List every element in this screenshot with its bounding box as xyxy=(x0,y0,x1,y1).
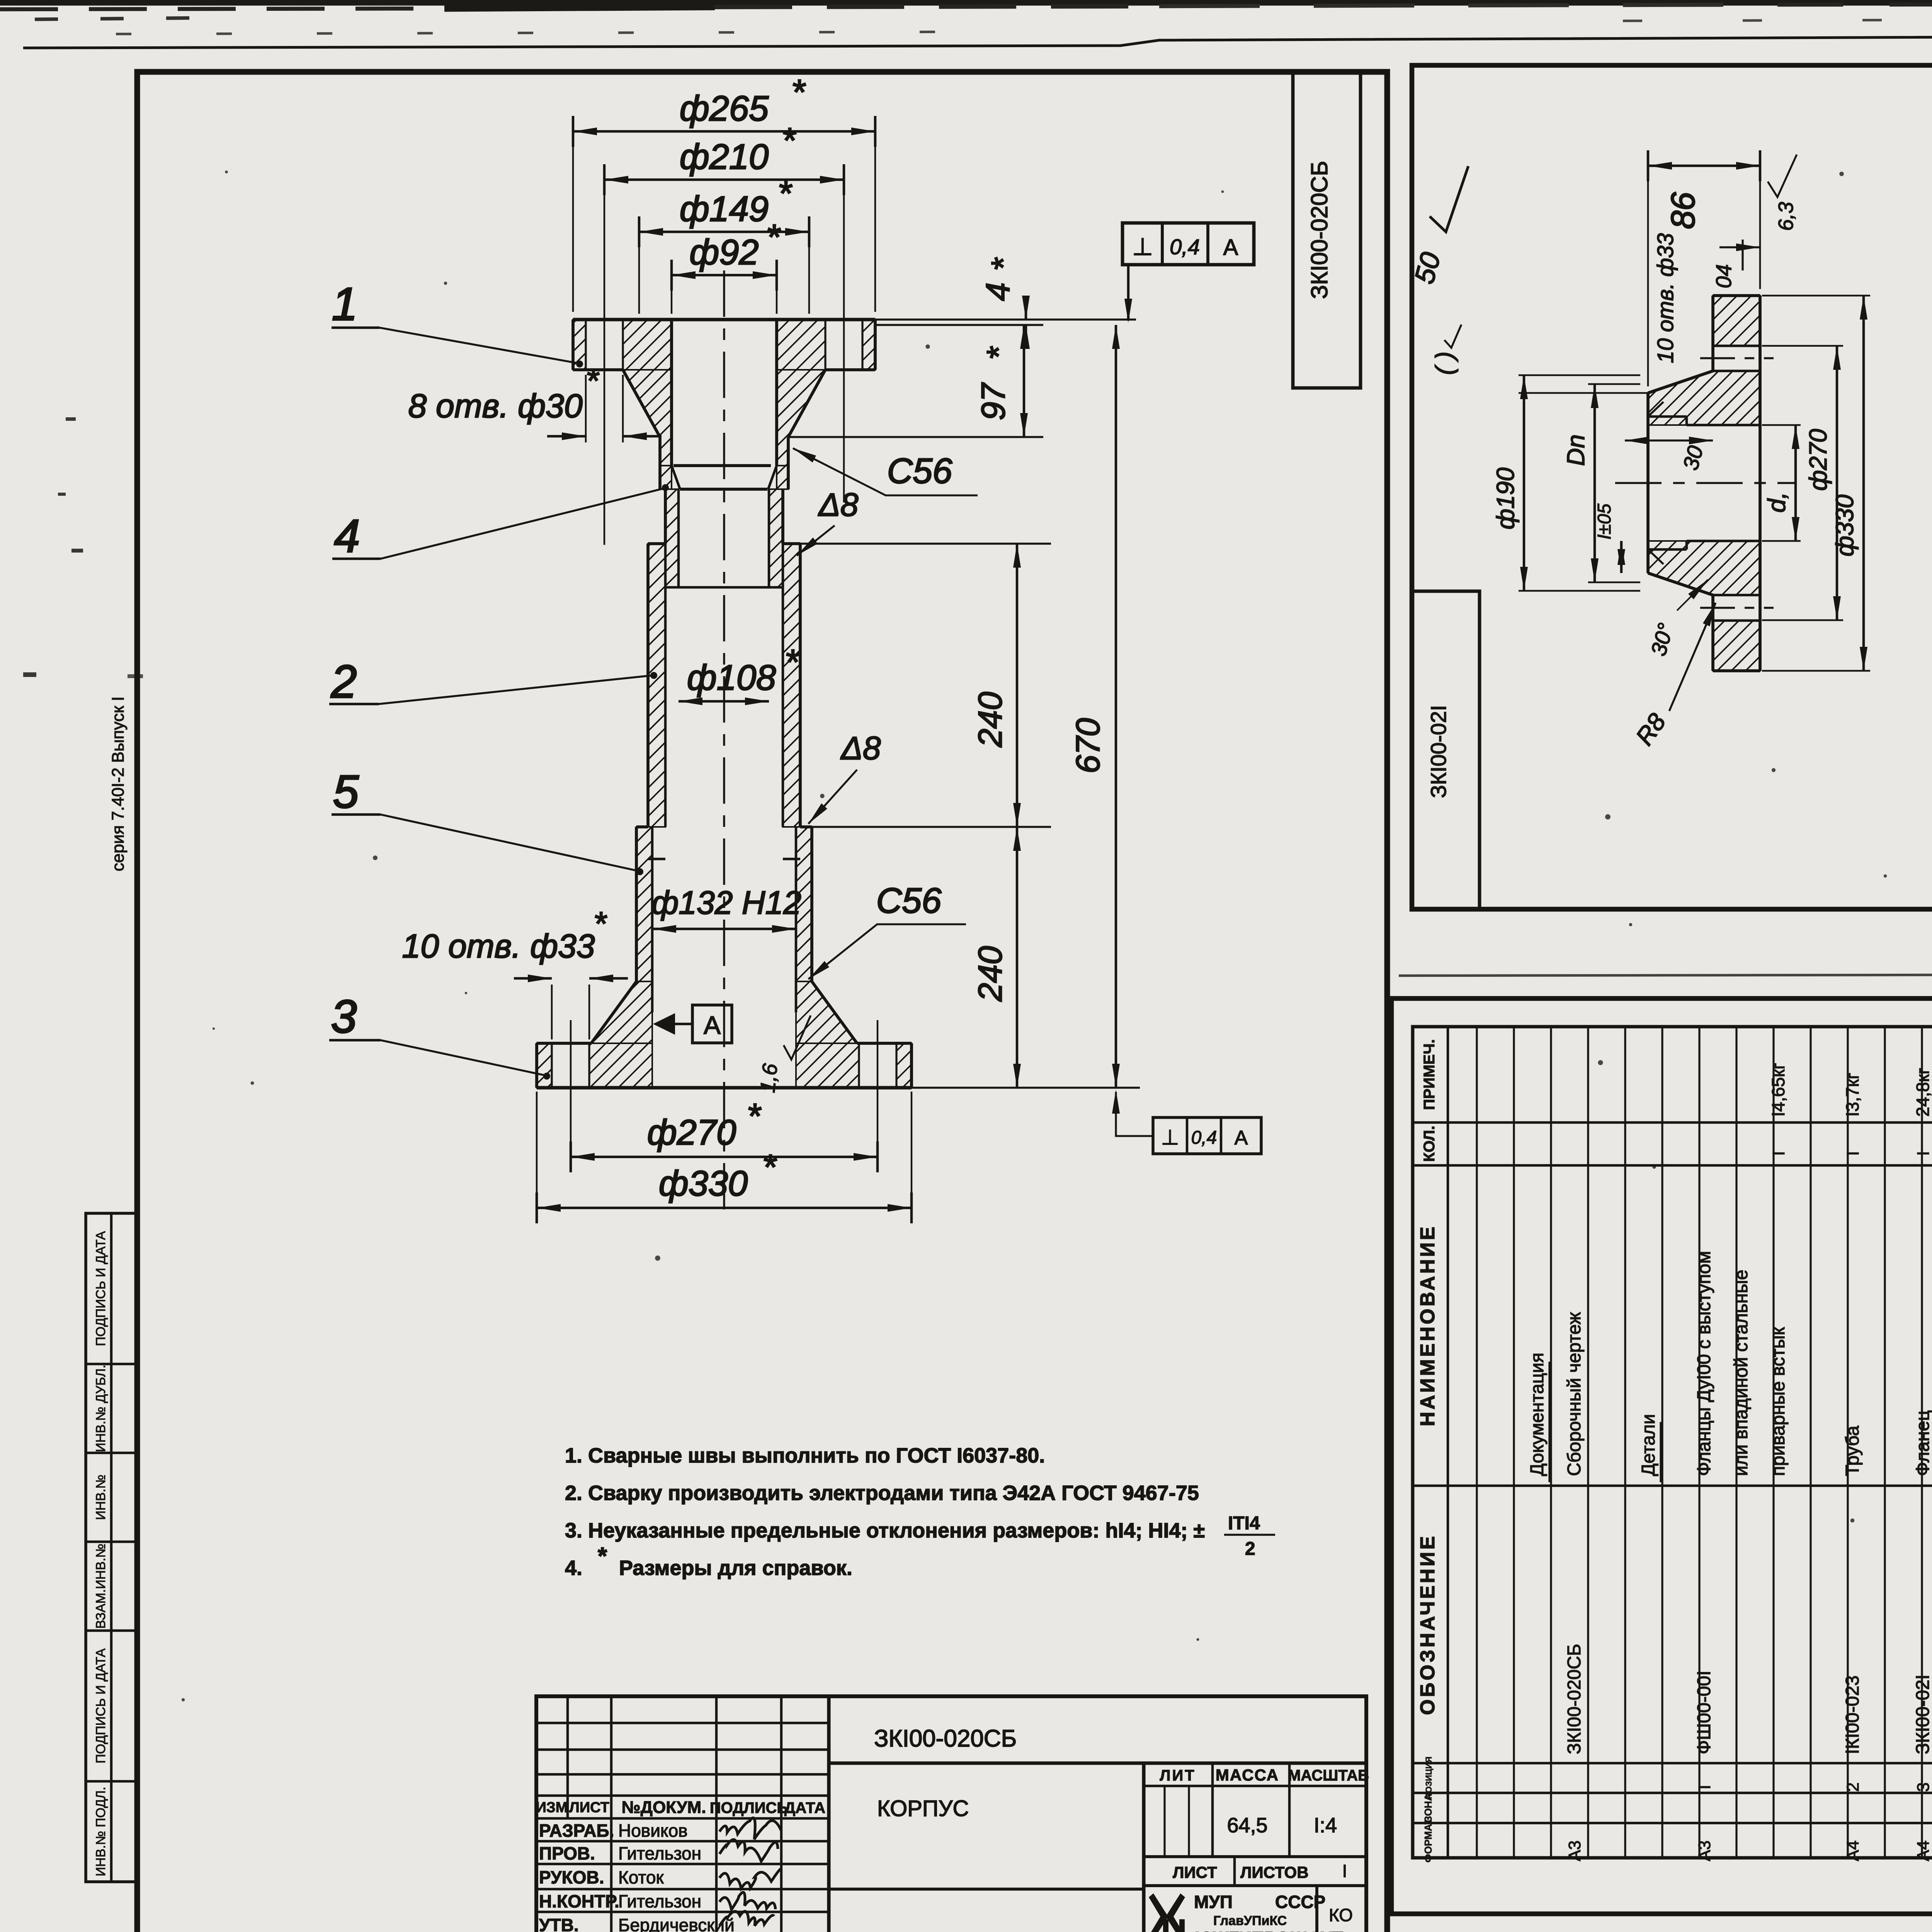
spec table outer xyxy=(1413,1027,1932,1858)
title block lit massa masshtab xyxy=(1144,1785,1366,1787)
svg-text:ПОДПИСЬ И ДАТА: ПОДПИСЬ И ДАТА xyxy=(94,1648,108,1764)
svg-text:ЗКI00-02I: ЗКI00-02I xyxy=(1426,705,1451,798)
svg-text:ПОДПИСЬ И ДАТА: ПОДПИСЬ И ДАТА xyxy=(94,1231,108,1346)
svg-text:Гительзон: Гительзон xyxy=(618,1891,701,1912)
cone hatching right xyxy=(796,981,857,1043)
dimension 240 upper xyxy=(800,543,1051,544)
spec sheet frame xyxy=(1391,998,1932,1914)
svg-text:I: I xyxy=(1695,1785,1714,1789)
svg-text:I: I xyxy=(1769,1151,1788,1156)
svg-text:*: * xyxy=(791,73,806,112)
svg-text:I:4: I:4 xyxy=(1314,1814,1337,1837)
pipe hatching xyxy=(665,489,679,587)
logo glyph xyxy=(1149,1893,1185,1932)
svg-text:ЗКI00-02I: ЗКI00-02I xyxy=(1913,1675,1932,1754)
svg-text:I: I xyxy=(1844,1151,1862,1156)
dimension 4* xyxy=(1025,298,1027,320)
bushing to bottom flange cone xyxy=(591,981,636,1043)
svg-text:ЗКI00-020СБ: ЗКI00-020СБ xyxy=(1564,1644,1585,1754)
svg-text:ЛИСТ: ЛИСТ xyxy=(569,1799,609,1816)
top flange neck cone walls xyxy=(623,370,660,437)
title block list listov row xyxy=(1233,1857,1236,1886)
sleeve hatching xyxy=(648,544,665,827)
svg-text:Новиков: Новиков xyxy=(618,1821,688,1841)
flange sheet bottom paper edge xyxy=(1399,974,1932,976)
bushing hatching xyxy=(636,827,652,981)
svg-text:Фланцы ДуI00 с выступом: Фланцы ДуI00 с выступом xyxy=(1694,1251,1714,1476)
svg-text:4: 4 xyxy=(980,282,1017,301)
title block organization logo cell xyxy=(1315,1886,1318,1932)
svg-text:УТВ.: УТВ. xyxy=(539,1915,579,1932)
top flange hatching xyxy=(573,320,586,370)
flange disc outline xyxy=(1713,294,1760,297)
svg-text:10 отв. ф33: 10 отв. ф33 xyxy=(1653,233,1678,363)
svg-text:ЛИСТ: ЛИСТ xyxy=(1173,1863,1217,1881)
flange dim d1 xyxy=(1762,424,1801,426)
svg-text:ЗКI00-020СБ: ЗКI00-020СБ xyxy=(1306,161,1332,299)
svg-text:Бердичевский: Бердичевский xyxy=(618,1915,735,1932)
bushing poz.3 walls xyxy=(635,827,638,981)
svg-text:ДАТА: ДАТА xyxy=(784,1799,825,1816)
svg-text:А: А xyxy=(1223,235,1238,260)
flange dim 86 xyxy=(1647,158,1649,386)
dimension f149 xyxy=(638,224,640,314)
flange bolt hole top xyxy=(1713,345,1760,347)
left margin filing table xyxy=(86,1213,137,1882)
svg-text:86: 86 xyxy=(1665,192,1702,229)
svg-text:I: I xyxy=(1914,1151,1932,1156)
svg-text:*: * xyxy=(980,346,1017,360)
svg-text:ЛИТ: ЛИТ xyxy=(1160,1767,1196,1784)
svg-text:ЗОНА: ЗОНА xyxy=(1422,1794,1434,1822)
svg-text:ФОРМАТ: ФОРМАТ xyxy=(1422,1818,1434,1863)
svg-text:КО: КО xyxy=(1329,1905,1353,1925)
flange face datum lines right xyxy=(875,318,1136,320)
dimension f210 xyxy=(604,172,605,545)
svg-text:⊥: ⊥ xyxy=(1161,1126,1179,1149)
svg-text:А4: А4 xyxy=(1914,1840,1932,1861)
svg-text:*: * xyxy=(777,174,793,213)
svg-text:МАССА: МАССА xyxy=(1216,1766,1279,1784)
svg-text:1: 1 xyxy=(332,278,358,330)
svg-text:*: * xyxy=(781,121,796,160)
svg-text:КОРПУС: КОРПУС xyxy=(877,1796,969,1821)
svg-text:1. Сварные швы выполнить по ГО: 1. Сварные швы выполнить по ГОСТ I6037-8… xyxy=(565,1444,1045,1467)
svg-text:*: * xyxy=(585,362,599,400)
left sheet title block xyxy=(536,1696,1366,1932)
svg-text:ИЗМ: ИЗМ xyxy=(536,1799,568,1816)
svg-text:Документация: Документация xyxy=(1527,1353,1548,1476)
svg-text:А: А xyxy=(1235,1127,1248,1149)
spec table column lines xyxy=(1476,1027,1478,1858)
svg-text:240: 240 xyxy=(972,692,1009,748)
svg-text:РАЗРАБ.: РАЗРАБ. xyxy=(539,1821,614,1841)
pipe lower end face xyxy=(665,586,783,589)
weld joint lines C56 top xyxy=(673,464,771,467)
pipe poz.2 walls xyxy=(664,489,667,544)
svg-text:*: * xyxy=(747,1097,762,1136)
svg-text:ф330: ф330 xyxy=(1831,494,1859,556)
svg-text:ф132 Н12: ф132 Н12 xyxy=(651,884,801,921)
flange sheet frame xyxy=(1412,65,1932,909)
dimension f265 xyxy=(572,124,574,312)
dimension 97* xyxy=(788,436,1043,438)
svg-text:*: * xyxy=(762,1148,777,1187)
svg-text:Dn: Dn xyxy=(1562,434,1590,466)
svg-text:А4: А4 xyxy=(1844,1840,1862,1861)
svg-text:или впадиной стальные: или впадиной стальные xyxy=(1731,1270,1752,1476)
datum A flag xyxy=(653,1013,675,1035)
svg-text:64,5: 64,5 xyxy=(1227,1814,1267,1837)
svg-text:IТI4: IТI4 xyxy=(1228,1513,1260,1534)
svg-text:ИНВ.№ ДУБЛ.: ИНВ.№ ДУБЛ. xyxy=(94,1365,108,1452)
flange dim 40 xyxy=(1742,240,1743,270)
svg-text:Гительзон: Гительзон xyxy=(618,1844,701,1864)
svg-text:ИНВ.№ ПОДЛ.: ИНВ.№ ПОДЛ. xyxy=(94,1787,108,1876)
svg-text:ГлавУПиКС: ГлавУПиКС xyxy=(1213,1913,1287,1928)
svg-text:8 отв. ф30: 8 отв. ф30 xyxy=(408,388,583,425)
flange roughness 6,3 xyxy=(1768,155,1797,197)
flange rim hatching top xyxy=(1713,296,1760,346)
svg-text:I: I xyxy=(1342,1861,1347,1881)
svg-text:2. Сварку производить электрод: 2. Сварку производить электродами типа Э… xyxy=(565,1481,1199,1505)
svg-text:Δ8: Δ8 xyxy=(818,486,858,523)
svg-text:МУП: МУП xyxy=(1194,1892,1233,1912)
svg-text:97: 97 xyxy=(975,382,1012,420)
svg-text:ф265: ф265 xyxy=(680,89,769,128)
svg-text:ЛИСТОВ: ЛИСТОВ xyxy=(1240,1863,1309,1881)
svg-text:Размеры для справок.: Размеры для справок. xyxy=(619,1556,852,1580)
svg-text:2: 2 xyxy=(331,656,357,707)
svg-text:ф330: ф330 xyxy=(659,1164,748,1203)
svg-text:Н.КОНТР.: Н.КОНТР. xyxy=(539,1891,619,1912)
svg-text:А3: А3 xyxy=(1565,1840,1584,1861)
svg-text:Δ8: Δ8 xyxy=(840,730,881,766)
dimension f330 xyxy=(536,1092,538,1215)
svg-text:3: 3 xyxy=(331,991,357,1043)
dimension 670 xyxy=(912,1087,1140,1088)
svg-text:ПОДЛИСЬ: ПОДЛИСЬ xyxy=(710,1799,788,1816)
sleeve bottom end inside bushing xyxy=(648,858,665,861)
svg-text:А: А xyxy=(704,1011,721,1039)
svg-text:ОБОЗНАЧЕНИЕ: ОБОЗНАЧЕНИЕ xyxy=(1417,1534,1439,1715)
svg-text:6,3: 6,3 xyxy=(1774,202,1798,231)
neck hatching right xyxy=(777,370,825,466)
svg-text:C56: C56 xyxy=(876,881,942,920)
svg-text:ф92: ф92 xyxy=(689,233,759,272)
svg-text:I3,7кг: I3,7кг xyxy=(1842,1073,1862,1117)
svg-text:I4,65кг: I4,65кг xyxy=(1768,1063,1788,1117)
flange dim f270 xyxy=(1762,345,1843,347)
svg-text:3: 3 xyxy=(1914,1782,1932,1792)
svg-text:C56: C56 xyxy=(887,451,953,491)
svg-text:НАИМЕНОВАНИЕ: НАИМЕНОВАНИЕ xyxy=(1417,1225,1439,1427)
svg-text:ФШ00-00I: ФШ00-00I xyxy=(1694,1670,1714,1754)
svg-text:IКI00-023: IКI00-023 xyxy=(1842,1675,1863,1754)
svg-text:ЗКI00-020СБ: ЗКI00-020СБ xyxy=(874,1725,1017,1752)
svg-text:*: * xyxy=(784,643,799,682)
flange sheet first-use box ZK100-021 xyxy=(1412,591,1480,909)
svg-text:ф108: ф108 xyxy=(687,658,776,697)
svg-text:670: 670 xyxy=(1070,718,1107,774)
flange dim 1+-05 xyxy=(1620,541,1623,573)
flange dim f190 xyxy=(1519,392,1648,394)
svg-text:4: 4 xyxy=(334,510,360,562)
sleeve poz.5 upper walls xyxy=(646,544,650,827)
svg-text:Труба: Труба xyxy=(1842,1425,1863,1476)
flange bore lines xyxy=(1687,424,1760,427)
svg-text:№ДОКУМ.: №ДОКУМ. xyxy=(622,1798,706,1817)
drawing center line xyxy=(723,270,725,1221)
svg-text:*: * xyxy=(598,1543,607,1570)
svg-text:МАСШТАБ: МАСШТАБ xyxy=(1288,1767,1369,1784)
spec table band lines xyxy=(1413,1121,1932,1124)
svg-text:*: * xyxy=(593,905,607,942)
svg-text:2: 2 xyxy=(1245,1539,1255,1559)
svg-text:ф210: ф210 xyxy=(680,137,769,177)
flange dim 30 depth xyxy=(1625,439,1713,441)
flange bolt hole bottom xyxy=(1713,594,1760,597)
svg-text:ПОЗИЦИЯ: ПОЗИЦИЯ xyxy=(1424,1757,1434,1799)
svg-text:1,6: 1,6 xyxy=(756,1062,782,1094)
dimension f270 xyxy=(570,1020,572,1164)
svg-text:РУКОВ.: РУКОВ. xyxy=(539,1867,604,1888)
bottom flange hatching xyxy=(537,1043,552,1088)
svg-text:Сборочный чертеж: Сборочный чертеж xyxy=(1564,1312,1585,1476)
svg-text:24,8кг: 24,8кг xyxy=(1913,1068,1932,1117)
neck hatching left xyxy=(623,370,672,466)
svg-text:0,4: 0,4 xyxy=(1191,1128,1217,1148)
scan top dark edge xyxy=(0,0,1932,5)
svg-text:( ): ( ) xyxy=(1430,352,1458,375)
svg-text:ИНВ.№: ИНВ.№ xyxy=(94,1475,108,1520)
svg-text:ПРИМЕЧ.: ПРИМЕЧ. xyxy=(1421,1039,1438,1110)
flange dim Dn xyxy=(1588,383,1640,385)
svg-text:ВЗАМ.ИНВ.№: ВЗАМ.ИНВ.№ xyxy=(94,1544,108,1629)
svg-text:2: 2 xyxy=(1844,1782,1862,1792)
flange hub hatching top xyxy=(1648,371,1760,425)
svg-text:d,: d, xyxy=(1763,492,1791,512)
svg-text:КОЛ.: КОЛ. xyxy=(1421,1126,1438,1162)
tolerance frame top perpendicularity 0,4 A xyxy=(1122,223,1254,265)
doc number box top right of left sheet xyxy=(1293,72,1361,388)
spec table header column xyxy=(1447,1027,1449,1858)
svg-text:3. Неуказанные предельные откл: 3. Неуказанные предельные отклонения раз… xyxy=(565,1519,1205,1542)
album page top edge line xyxy=(23,34,1932,48)
left sheet frame xyxy=(137,72,1387,1932)
svg-text:А3: А3 xyxy=(1695,1840,1714,1861)
svg-text:СССР: СССР xyxy=(1275,1892,1325,1912)
svg-text:*: * xyxy=(766,218,781,257)
svg-text:ф149: ф149 xyxy=(680,189,769,229)
svg-text:ЮЖГИПРОШАХТ: ЮЖГИПРОШАХТ xyxy=(1195,1928,1343,1932)
svg-text:серия 7.40I-2 Выпуск I: серия 7.40I-2 Выпуск I xyxy=(109,696,128,871)
scan speckles xyxy=(925,344,930,349)
flange hub hatching bottom xyxy=(1648,541,1760,595)
svg-text:⊥: ⊥ xyxy=(1132,234,1153,260)
svg-text:240: 240 xyxy=(972,946,1009,1002)
dimension 240 lower xyxy=(1016,827,1019,1088)
title block name cell KORPUS xyxy=(829,1888,1144,1891)
tolerance frame bottom perpendicularity 0,4 A xyxy=(1153,1117,1261,1154)
svg-text:*: * xyxy=(985,257,1022,271)
svg-text:Детали: Детали xyxy=(1638,1414,1659,1476)
svg-text:ПРОВ.: ПРОВ. xyxy=(539,1844,595,1864)
svg-text:0,4: 0,4 xyxy=(1170,235,1200,259)
svg-text:ф270: ф270 xyxy=(647,1113,736,1152)
svg-text:Коток: Коток xyxy=(618,1867,664,1888)
svg-text:ф190: ф190 xyxy=(1492,467,1519,529)
svg-text:приварные встык: приварные встык xyxy=(1768,1327,1789,1476)
flange dim f330 xyxy=(1762,295,1870,297)
bottom flange plate poz.3 xyxy=(537,1042,591,1045)
flange section axis line xyxy=(1615,482,1797,484)
corpus drawing: top flange poz.1 xyxy=(573,318,875,321)
title block doc designation cell xyxy=(829,1761,1366,1765)
svg-text:Фланец: Фланец xyxy=(1913,1410,1932,1476)
svg-text:4.: 4. xyxy=(565,1556,582,1580)
svg-text:I±05: I±05 xyxy=(1594,503,1615,539)
svg-text:04: 04 xyxy=(1711,264,1736,288)
svg-text:5: 5 xyxy=(333,766,359,818)
svg-text:ф270: ф270 xyxy=(1804,429,1832,491)
flange rim hatching bottom xyxy=(1713,621,1760,671)
cone hatching left xyxy=(591,981,652,1043)
flange hub outline xyxy=(1648,371,1713,393)
dimension f92 xyxy=(671,267,673,314)
svg-text:10 отв. ф33: 10 отв. ф33 xyxy=(402,928,595,965)
